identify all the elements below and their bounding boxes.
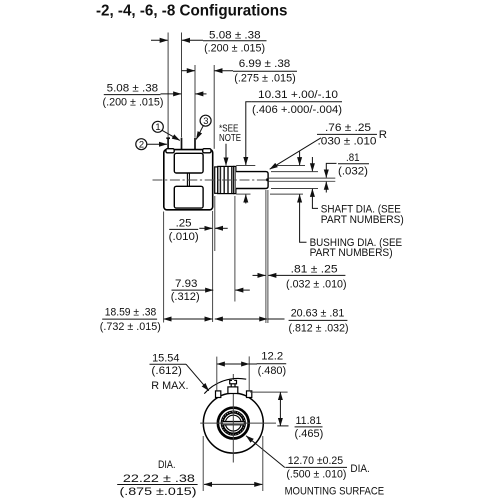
centerline xyxy=(153,179,270,181)
ext line D (mounting surface) xyxy=(213,65,215,149)
body top-right tab xyxy=(203,149,211,153)
svg-text:(.200 ± .015): (.200 ± .015) xyxy=(103,96,164,108)
svg-text:5.08 ± .38: 5.08 ± .38 xyxy=(107,83,159,95)
svg-text:(.732 ± .015): (.732 ± .015) xyxy=(100,321,161,333)
svg-text:11.81: 11.81 xyxy=(296,415,322,427)
svg-text:(.275 ± .015): (.275 ± .015) xyxy=(234,72,296,84)
threaded bushing xyxy=(218,166,234,193)
.25 arrows xyxy=(199,227,227,229)
svg-text:12.70 ±0.25: 12.70 ±0.25 xyxy=(288,455,343,467)
15.54 text xyxy=(150,352,189,392)
svg-text:(.465): (.465) xyxy=(295,428,324,440)
slot white band xyxy=(223,422,244,425)
bushing dia leader + up arrow xyxy=(300,194,307,242)
rotor slot lines xyxy=(186,173,188,186)
22.22 dim line xyxy=(204,483,262,485)
bottom dim line 20.63 segment xyxy=(215,318,267,320)
shaft slot end dot xyxy=(266,178,269,181)
bushing id circle xyxy=(221,411,245,435)
slot edges xyxy=(223,420,244,422)
22.22 ext lines xyxy=(203,436,263,491)
body outline xyxy=(164,150,213,210)
11.81 dim line xyxy=(279,392,281,426)
svg-text:.76 ± .25: .76 ± .25 xyxy=(325,122,371,134)
11.81 bottom tick xyxy=(277,425,288,427)
pin 3 xyxy=(194,138,196,150)
dim row2 6.99 text xyxy=(233,58,297,85)
svg-text:(.875 ±.015): (.875 ±.015) xyxy=(120,486,197,498)
svg-text:22.22 ± .38: 22.22 ± .38 xyxy=(123,473,195,485)
shaft dia ext lines xyxy=(271,171,318,173)
ext line A (terminal 2 lug) xyxy=(167,33,169,138)
R tip callout text xyxy=(317,122,387,148)
slot .81 callout xyxy=(338,152,369,178)
svg-text:NOTE: NOTE xyxy=(219,133,241,144)
svg-text:(.812 ± .032): (.812 ± .032) xyxy=(289,322,349,334)
11.81 text xyxy=(295,415,324,440)
body top-left tab xyxy=(166,149,174,153)
balloon 3 xyxy=(196,115,211,139)
svg-text:R MAX.: R MAX. xyxy=(151,380,188,392)
terminal left (pin) xyxy=(216,391,221,398)
svg-text:(.480): (.480) xyxy=(258,365,287,377)
terminal right (pin) xyxy=(247,391,252,398)
center lug base xyxy=(228,387,238,394)
bottom dim line 18.59 segment xyxy=(164,318,213,320)
20.63 text xyxy=(289,308,349,335)
svg-text:15.54: 15.54 xyxy=(152,352,179,364)
tail to 20.63 text xyxy=(268,318,285,320)
svg-text:(.406 +.000/-.004): (.406 +.000/-.004) xyxy=(252,104,342,116)
.81 +- .25 dim text xyxy=(285,264,347,291)
crosshair vertical xyxy=(232,374,234,463)
svg-text:R: R xyxy=(379,129,387,141)
ext line B (pin 1) xyxy=(181,33,183,138)
shaft xyxy=(236,172,268,189)
bushing dia ext lines xyxy=(236,165,255,167)
bushing face band xyxy=(234,166,236,193)
12.2 text xyxy=(257,351,287,377)
collar / mounting surface xyxy=(215,167,218,193)
lug swing arc R15.54 xyxy=(204,378,246,393)
svg-text:(.612): (.612) xyxy=(151,365,182,377)
svg-text:(.010): (.010) xyxy=(169,231,199,243)
knurl ring xyxy=(222,412,244,434)
rotor upper window xyxy=(174,153,203,173)
7.93 dim text xyxy=(171,278,205,303)
11.81 top ext line xyxy=(250,391,287,393)
svg-text:3: 3 xyxy=(203,115,208,126)
svg-text:.030 ± .010: .030 ± .010 xyxy=(318,136,377,148)
dim row1 5.08 arrows xyxy=(151,39,203,41)
dim row1 5.08 text xyxy=(203,29,267,54)
svg-text:(.500 ± .010): (.500 ± .010) xyxy=(286,469,346,481)
lower ext lines xyxy=(164,190,268,323)
mounting surface ring (12.70 dia) xyxy=(218,408,249,439)
10.31 bottom up arrow xyxy=(245,195,247,204)
svg-text:1: 1 xyxy=(155,121,160,132)
22.22 text xyxy=(117,459,197,498)
svg-text:20.63 ± .81: 20.63 ± .81 xyxy=(291,308,345,320)
svg-text:MOUNTING SURFACE: MOUNTING SURFACE xyxy=(285,485,385,497)
svg-text:7.93: 7.93 xyxy=(175,278,197,290)
svg-text:PART NUMBERS): PART NUMBERS) xyxy=(310,247,393,259)
SEE NOTE label xyxy=(219,123,241,165)
svg-text:18.59 ± .38: 18.59 ± .38 xyxy=(105,307,157,319)
slot up arrow xyxy=(325,182,327,193)
svg-text:12.2: 12.2 xyxy=(261,351,283,363)
shaft dia leader + up arrow xyxy=(312,189,318,209)
svg-text:DIA.: DIA. xyxy=(350,463,369,475)
svg-text:5.08 ± .38: 5.08 ± .38 xyxy=(209,29,261,41)
pin 1 xyxy=(181,138,183,150)
svg-text:.81: .81 xyxy=(346,152,360,164)
balloon 2 xyxy=(136,139,167,150)
crosshair horizontal xyxy=(200,422,276,424)
10.31 bracket leader w/ down arrow (bushing dia top) xyxy=(246,102,252,165)
12.70 text xyxy=(285,455,385,497)
slot inner circle xyxy=(225,415,241,431)
svg-text:(.032): (.032) xyxy=(338,165,368,177)
.25 dim text xyxy=(169,218,199,243)
svg-text:6.99 ± .38: 6.99 ± .38 xyxy=(239,58,291,70)
thread ridges xyxy=(220,167,231,193)
slot width ext lines xyxy=(236,166,335,195)
body circle xyxy=(203,393,263,453)
svg-text:(.200 ± .015): (.200 ± .015) xyxy=(204,43,265,55)
shaft dia down arrow xyxy=(311,157,313,171)
svg-text:.25: .25 xyxy=(176,218,192,230)
svg-text:PART NUMBERS): PART NUMBERS) xyxy=(321,214,404,226)
slot bent leader down arrow xyxy=(326,163,336,177)
12.2 ext lines xyxy=(217,356,249,390)
12.2 dim line xyxy=(217,363,249,365)
18.59 text xyxy=(100,307,161,333)
svg-text:(.312): (.312) xyxy=(171,291,200,303)
terminal 2 solder lug xyxy=(166,138,170,149)
svg-text:-2, -4, -6, -8 Configurations: -2, -4, -6, -8 Configurations xyxy=(96,3,288,20)
dim row3 5.08 arrows xyxy=(161,93,207,95)
dim row4 10.31 text xyxy=(252,89,342,116)
7.93 arrows xyxy=(205,289,250,291)
15.54 leader xyxy=(186,364,209,391)
R leader diagonal xyxy=(270,138,321,169)
rotor lower window xyxy=(174,186,203,208)
shaft circle xyxy=(223,413,244,434)
12.70 leader xyxy=(246,436,285,468)
bushing dia down arrow xyxy=(299,152,301,166)
svg-text:2: 2 xyxy=(139,139,144,150)
svg-text:(.032 ± .010): (.032 ± .010) xyxy=(286,279,347,291)
dim row2 6.99 arrows xyxy=(182,70,234,72)
svg-text:DIA.: DIA. xyxy=(158,459,176,471)
center lug post xyxy=(231,383,235,388)
svg-text:10.31 +.00/-.10: 10.31 +.00/-.10 xyxy=(258,89,338,101)
balloon 1 xyxy=(152,121,180,140)
dim row3 5.08 text (left) xyxy=(103,83,164,109)
ext line C (pin 3) xyxy=(194,65,196,137)
svg-text:.81 ± .25: .81 ± .25 xyxy=(291,264,338,276)
.81 arrows xyxy=(253,274,286,276)
